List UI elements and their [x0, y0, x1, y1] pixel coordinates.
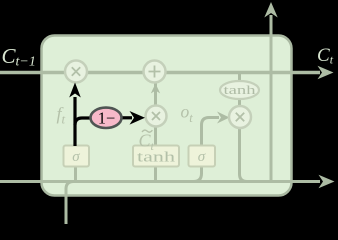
- svg-text:1−: 1−: [98, 109, 116, 128]
- gate layer: candidate tanh box: [133, 146, 179, 167]
- highlighted black arrow: from 1-minus oval into candidate multiply: [120, 111, 145, 125]
- gate layer: forget sigma box: [64, 146, 90, 167]
- wire: x_t input from bottom: [66, 182, 74, 225]
- operator: output multiply circle: [229, 106, 251, 128]
- svg-text:σ: σ: [198, 149, 206, 165]
- wire: branch from bottom line up to tanh layer: [154, 166, 157, 182]
- tanh oval on output path: [220, 81, 259, 99]
- wire: output path from C line down through tanh and x to bottom line: [240, 73, 248, 182]
- arrowhead: h_t exit up: [264, 2, 277, 18]
- operator: add circle: [144, 61, 166, 83]
- arrowhead: into plus from below: [151, 84, 160, 94]
- wire: bottom hidden/input line: [0, 180, 320, 183]
- operator: forget multiply circle: [65, 61, 87, 83]
- arrowhead: C_t exit right: [318, 66, 334, 79]
- label C~_t (candidate): [139, 130, 155, 153]
- svg-text:σ: σ: [72, 149, 80, 165]
- LSTM cell body: [42, 36, 292, 196]
- highlighted black wire: branch from f_t line to 1-minus oval: [75, 118, 91, 125]
- wire: cell state line C: [0, 71, 320, 75]
- highlighted black arrow: f_t from sigma up into forget multiply: [69, 83, 81, 147]
- wire: h_t branch going up out of cell: [270, 15, 273, 182]
- arrowhead: h_t exit right: [319, 175, 335, 188]
- wire: branch from bottom line up to output sigma: [194, 166, 202, 182]
- operator: candidate multiply circle: [146, 106, 167, 127]
- svg-text:tanh: tanh: [224, 82, 257, 97]
- arrowhead: o_t into output x: [217, 112, 230, 124]
- wire: branch from bottom line up to forget sigma: [74, 166, 77, 182]
- svg-text:tanh: tanh: [137, 150, 176, 166]
- gate layer: output sigma box: [189, 146, 216, 167]
- wire: candidate path from tanh box up through x to plus: [154, 74, 157, 146]
- wire: o_t gate path from sigma up and right toward output x: [202, 118, 220, 149]
- 1-minus oval (highlighted pink): [91, 108, 122, 128]
